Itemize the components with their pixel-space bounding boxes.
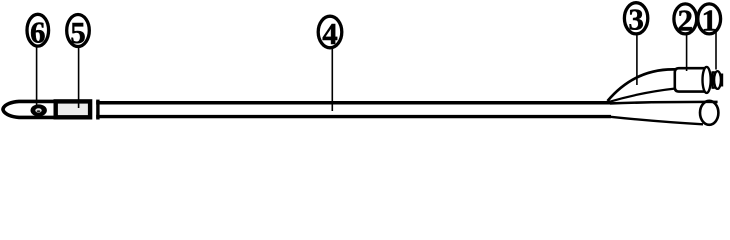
leader line 2 [686, 34, 688, 71]
inflation arm upper curve [608, 69, 676, 101]
leader line 4 [331, 48, 333, 111]
callout 3 [624, 2, 647, 37]
funnel top edge [610, 102, 718, 104]
callout 6 [27, 14, 49, 49]
callout 5 [67, 15, 90, 50]
callout 1 [698, 3, 721, 38]
svg-text:4: 4 [322, 16, 338, 51]
balloon marking band (component 5) [56, 101, 90, 117]
leader line 6 [36, 46, 38, 107]
valve body (component 2) [675, 68, 709, 91]
svg-text:6: 6 [30, 15, 46, 50]
svg-text:3: 3 [628, 2, 644, 37]
leader line 3 [636, 34, 638, 85]
svg-text:2: 2 [678, 3, 694, 38]
catheter tip segment outline [3, 101, 92, 117]
valve cap (component 1) [713, 71, 723, 89]
callout 4 [318, 16, 342, 51]
leader line 5 [78, 47, 80, 109]
callout 2 [674, 3, 697, 38]
funnel bottom edge (widening section) [611, 117, 704, 125]
leader line 1 [715, 32, 717, 70]
catheter shaft (main tube body) [96, 100, 611, 120]
svg-text:1: 1 [701, 3, 717, 38]
funnel mouth ellipse [700, 101, 718, 125]
inflation arm lower curve [609, 88, 677, 102]
valve body right face ellipse [703, 67, 711, 93]
svg-text:5: 5 [70, 15, 86, 50]
drainage eyelet (component 6) [31, 104, 47, 116]
